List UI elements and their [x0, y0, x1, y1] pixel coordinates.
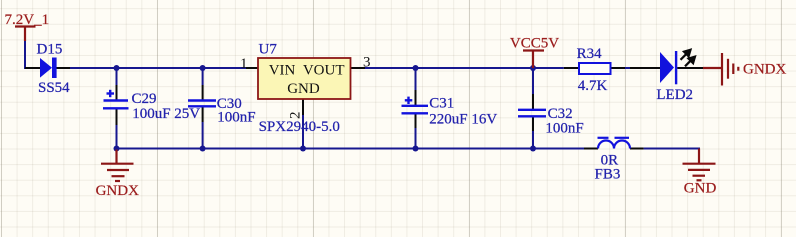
svg-text:C29: C29: [132, 91, 157, 107]
svg-text:100nF: 100nF: [545, 120, 583, 136]
svg-text:GND: GND: [684, 181, 717, 197]
svg-text:GND: GND: [287, 81, 320, 97]
svg-text:VIN VOUT: VIN VOUT: [269, 63, 345, 79]
svg-text:R34: R34: [577, 46, 603, 62]
svg-text:100uF 25V: 100uF 25V: [132, 106, 200, 122]
svg-text:FB3: FB3: [595, 167, 621, 183]
svg-text:D15: D15: [37, 42, 63, 58]
svg-text:3: 3: [363, 55, 371, 71]
svg-text:1: 1: [240, 56, 248, 72]
svg-text:SS54: SS54: [38, 80, 70, 96]
svg-text:C31: C31: [429, 96, 454, 112]
svg-text:2: 2: [288, 112, 304, 120]
svg-text:GNDX: GNDX: [96, 183, 139, 199]
svg-text:SPX2940-5.0: SPX2940-5.0: [259, 119, 340, 135]
svg-text:LED2: LED2: [656, 87, 693, 103]
svg-text:4.7K: 4.7K: [578, 78, 608, 94]
svg-text:100nF: 100nF: [217, 110, 255, 126]
svg-text:7.2V_1: 7.2V_1: [5, 12, 50, 28]
svg-text:GNDX: GNDX: [743, 62, 786, 78]
svg-text:VCC5V: VCC5V: [510, 35, 559, 51]
svg-text:220uF 16V: 220uF 16V: [429, 111, 497, 127]
svg-text:U7: U7: [259, 42, 278, 58]
